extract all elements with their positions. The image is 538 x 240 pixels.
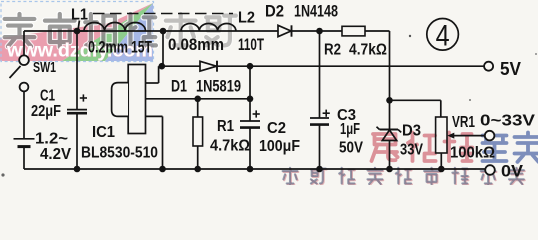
wire: R2 output drop [389,31,391,100]
IC1 pin mid (VOUT sense) [146,98,251,100]
svg-text:110T: 110T [238,36,264,54]
svg-text:C1: C1 [40,88,55,105]
diode D2 1N4148 [278,25,291,36]
page number circle 4 [427,19,459,51]
svg-text:4.7kΩ: 4.7kΩ [210,138,250,155]
IC1 BL8530-510 body [128,65,145,134]
svg-text:D2: D2 [265,2,284,21]
svg-text:BL8530-510: BL8530-510 [81,145,158,162]
wire: 33V node to VR1 [390,99,441,101]
scan specks [409,35,411,37]
svg-text:1.2~: 1.2~ [35,131,68,148]
svg-text:0~33V: 0~33V [480,113,535,130]
zener diode D3 33V [389,100,391,129]
node: LX node on 5V rail [159,63,166,70]
svg-text:D1: D1 [171,76,187,95]
wire: ground rail [24,168,485,170]
svg-text:C2: C2 [267,120,286,137]
svg-text:15T: 15T [131,39,152,57]
svg-text:22μF: 22μF [31,103,61,120]
svg-text:1N5819: 1N5819 [196,76,241,95]
svg-text:0V: 0V [501,162,524,181]
terminal: 5V output [484,62,493,71]
capacitor C3 1uF 50V [319,31,321,118]
svg-text:33V: 33V [400,142,423,159]
svg-text:1μF: 1μF [340,121,360,138]
inductor L1 0.2mm 15T [77,30,163,32]
svg-text:R2: R2 [324,42,341,59]
wire: 5V rail [162,65,484,67]
vertical wire to IC node [162,31,164,66]
node: D2/R2/C3 junction [316,28,323,35]
potentiometer VR1 100k [436,117,447,153]
resistor R2 4.7k [320,30,343,32]
resistor R1 4.7k [197,99,199,117]
node: D1 cathode / C2 [247,63,254,70]
capacitor C1 22uF [76,31,78,110]
node: R1 top [194,96,201,103]
svg-text:100kΩ: 100kΩ [450,145,495,162]
watermark: gray chinese text [5,14,35,46]
node: C2 top [247,96,254,103]
terminal: 0-33V output [485,131,495,141]
svg-text:5V: 5V [500,59,521,79]
wire: top rail left segment [24,30,88,32]
node: 33V node [386,97,393,104]
capacitor C2 100uF [249,66,251,121]
watermark: red logo big characters [372,134,398,161]
VR1 wiper arrow [450,135,485,137]
svg-text:50V: 50V [339,140,363,157]
watermark: colored triangles [0,3,153,61]
node: L1/L2 junction [160,28,167,35]
svg-text:100μF: 100μF [259,138,300,155]
watermark: dashed selection border [1,2,154,62]
svg-text:1N4148: 1N4148 [294,2,338,21]
svg-text:0.2mm: 0.2mm [88,39,128,57]
svg-text:VR1: VR1 [452,114,475,131]
node: C1 top junction [74,28,81,35]
switch SW1 [19,55,29,65]
svg-text:L1: L1 [71,7,88,24]
svg-text:IC1: IC1 [92,124,115,141]
inductor L2 0.08mm 110T [163,30,278,32]
svg-text:4.2V: 4.2V [40,146,71,163]
svg-text:SW1: SW1 [33,59,56,76]
diode D1 1N5819 [200,61,217,71]
IC1 pin top (LX) [146,82,159,84]
battery B1 1.2-4.2V [23,91,25,138]
svg-text:R1: R1 [217,118,234,135]
terminal: 0V output [485,165,495,175]
svg-text:4: 4 [436,20,450,53]
svg-text:0.08mm: 0.08mm [168,36,224,54]
wire: battery/switch left column [23,31,25,56]
watermark: small slogan characters [283,169,298,186]
IC1 pin bottom (GND) [146,115,163,117]
svg-text:L2: L2 [238,10,255,27]
svg-text:4.7kΩ: 4.7kΩ [349,42,387,59]
core dashed line [93,13,233,15]
svg-text:D3: D3 [402,123,421,140]
